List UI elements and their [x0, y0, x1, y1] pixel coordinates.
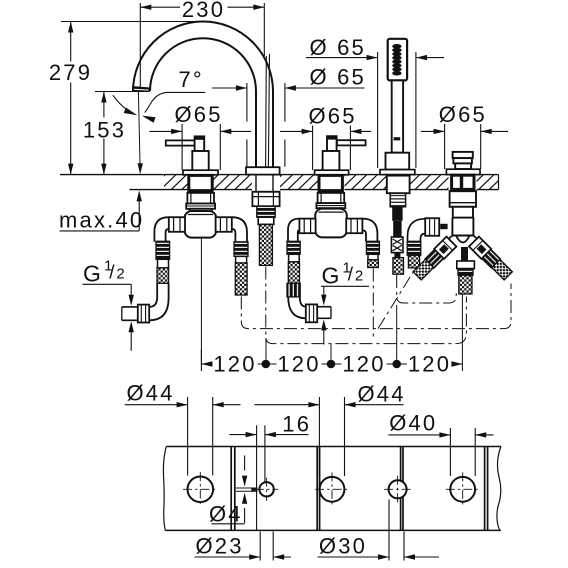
dimension O4 upper arrow	[244, 456, 246, 471]
dimension O65 diverter arrows	[434, 129, 445, 134]
shower shank block below deck	[387, 176, 410, 194]
spout tube reflection lines	[265, 56, 268, 167]
svg-text:max.40: max.40	[59, 208, 144, 233]
angle 7 deg right arrowhead	[142, 116, 156, 123]
svg-text:Ø44: Ø44	[358, 382, 406, 407]
right valve shank neck	[320, 208, 342, 212]
left valve left port hex	[169, 217, 185, 232]
routing diagonal to diverter left port hose	[378, 272, 414, 329]
spray axis arrow on deck	[138, 163, 143, 174]
hand shower head	[388, 39, 407, 81]
label G1/2 right lower arrow	[321, 319, 326, 330]
svg-text:7°: 7°	[179, 67, 204, 92]
svg-text:120: 120	[342, 351, 385, 376]
diverter escutcheon flange	[446, 169, 480, 174]
plate top edge	[166, 446, 501, 448]
hole 3 (O44) circle	[320, 477, 345, 502]
svg-text:Ø65: Ø65	[309, 103, 357, 128]
spout gooseneck outer arc	[133, 22, 273, 168]
right handle lever bar	[337, 140, 366, 145]
diverter upper body block	[450, 191, 476, 207]
svg-text:G: G	[83, 261, 103, 287]
spout shank through-deck lines	[255, 175, 257, 192]
right handle escutcheon flange	[315, 170, 349, 175]
hole 4 (O30) circle	[389, 480, 407, 498]
diverter left branch arm	[412, 237, 456, 281]
diverter knob top	[453, 152, 473, 158]
plate left break edge	[163, 447, 166, 531]
angle 7 deg left arc	[113, 95, 134, 113]
dimension 16 ext lines	[256, 425, 258, 530]
svg-text:279: 279	[49, 60, 92, 85]
svg-text:Ø 65: Ø 65	[310, 35, 367, 60]
bath rim deck bottom line	[130, 189, 499, 191]
dimension O65 left-handle arrows	[171, 129, 182, 134]
svg-text:153: 153	[83, 117, 126, 142]
shower hose pin	[394, 253, 400, 258]
dimension O65 shower underline-leader	[306, 57, 378, 59]
hand shower tube mark	[394, 137, 401, 140]
right valve shank block	[318, 193, 345, 203]
dimension O65 right-handle ext lines	[312, 126, 314, 171]
diverter knob neck	[455, 163, 471, 169]
diverter body lower	[452, 218, 473, 236]
hand shower handle tube	[392, 80, 403, 152]
dimension O44 left arrow line	[125, 404, 188, 406]
hole 1 (O44) circle	[188, 477, 214, 503]
label G1/2 left leader down	[130, 284, 132, 298]
hand shower escutcheon flange	[380, 170, 415, 175]
svg-text:2: 2	[355, 268, 366, 285]
shower hose braided end	[393, 258, 404, 275]
left valve shank block	[187, 193, 214, 204]
right hose end hex nut	[306, 304, 317, 322]
dimension O40 right line	[475, 434, 493, 436]
centerline stub c4 lower	[396, 305, 398, 364]
right valve left hose braided	[288, 262, 299, 283]
plate joint line 3	[400, 447, 402, 531]
left hose upper ribbed connector	[156, 241, 170, 259]
right valve right hose ribbed connector	[366, 241, 379, 254]
right valve shank collar	[316, 203, 345, 208]
label G1/2 right underline	[321, 285, 369, 287]
svg-text:120: 120	[213, 351, 256, 376]
dimension O30 ext lines	[388, 500, 390, 561]
dimension O65 spout arrow lines	[212, 87, 247, 89]
dimension 120 row left ext line	[200, 350, 202, 372]
svg-text:230: 230	[182, 0, 225, 22]
dimension O44 right arrows	[308, 402, 319, 407]
svg-text:120: 120	[277, 351, 320, 376]
left handle escutcheon flange	[183, 170, 218, 175]
dimension 279 top extension line	[61, 21, 203, 23]
label max40 leader	[138, 196, 140, 231]
dimension O65 left-handle arrow lines	[150, 130, 183, 132]
left valve right port hex	[216, 217, 232, 232]
dimension O65 shower arrows	[367, 55, 378, 60]
diverter knob middle	[453, 158, 472, 163]
dimension O65 spout arrows	[236, 85, 247, 90]
right hose G1/2 pipe end	[317, 306, 331, 308]
diverter left port hose ribbed	[407, 241, 421, 255]
centerline stub c3 lower	[330, 344, 332, 364]
bath rim deck top surface line	[60, 174, 499, 176]
hand shower knurled grip pattern	[392, 44, 401, 49]
routing line from shower hose to diverter center	[397, 275, 457, 303]
spout supply hose braided	[259, 224, 272, 265]
right valve right elbow tube	[362, 219, 377, 242]
svg-text:Ø44: Ø44	[127, 381, 175, 406]
dimension O44 right arrow line	[255, 404, 320, 406]
shower connection rod	[392, 207, 402, 221]
dimension O44 right ext lines	[318, 397, 320, 476]
dimension 230 extension line left	[139, 3, 141, 87]
plate joint line 2	[316, 447, 318, 531]
dimension O30 arrows	[378, 554, 389, 559]
dimension O65 shower ext lines	[377, 52, 379, 168]
left valve body	[185, 211, 217, 238]
dimension O44 left arrows	[177, 402, 188, 407]
spout shank nut	[257, 206, 275, 217]
dimension O4 hole lines	[236, 487, 258, 489]
routing line from left valve hose to diverter right branch	[241, 284, 511, 329]
diverter center outlet rod	[461, 247, 468, 261]
right valve left hose lower ribbed	[287, 283, 300, 297]
dimension O65 shower right line	[416, 57, 444, 59]
left hose braided section	[157, 268, 169, 283]
dimension O23 arrows	[249, 554, 260, 559]
plate right end double line	[484, 447, 486, 531]
plate joint line 1	[230, 447, 232, 531]
dimension O65 spout ext lines	[246, 83, 248, 122]
left hose lower elbow tube	[149, 283, 157, 307]
dimension O65 right-handle arrows	[302, 129, 313, 134]
dimension O40 ext lines	[449, 428, 451, 476]
svg-text:Ø65: Ø65	[175, 102, 223, 127]
deck right end edge	[498, 175, 500, 190]
dimension 279 line	[70, 22, 72, 62]
dimension 230 extension line right	[263, 3, 265, 56]
left handle lever bar	[166, 140, 196, 145]
hole 2 (O23) circle	[259, 482, 273, 496]
right valve left port hex	[299, 219, 315, 234]
left handle cartridge body	[192, 151, 208, 170]
diverter center hose nut	[457, 261, 475, 269]
svg-text:Ø23: Ø23	[196, 534, 244, 559]
dimension O65 left-handle ext lines	[181, 124, 183, 170]
label max40 arrow	[137, 190, 142, 201]
diverter Y body outline	[433, 236, 493, 253]
right valve mounting nut in deck hole	[319, 175, 342, 190]
centerline c1 to dimension row	[200, 239, 202, 365]
left hose G1/2 pipe end	[122, 306, 138, 308]
shower hose X connector	[391, 237, 403, 253]
dimension 120 row dots	[262, 360, 271, 369]
dimension 120 row arrows	[201, 361, 212, 366]
dimension 153 extension line	[95, 91, 149, 93]
plate right break edge	[497, 447, 501, 531]
spout outlet aerator end	[133, 87, 150, 92]
left hose end hex nut	[138, 305, 149, 323]
centerline c5 lower	[461, 295, 463, 372]
spout gooseneck inner arc	[150, 38, 256, 167]
diverter center hose braided	[459, 275, 472, 294]
dimension O40 arrows	[439, 432, 450, 437]
dimension O44 left ext lines	[187, 397, 189, 476]
deck hole gaps	[188, 174, 213, 191]
hole 5 (O40) circle	[450, 477, 475, 502]
svg-text:120: 120	[408, 351, 451, 376]
left valve left elbow tube	[154, 217, 168, 241]
dimension O44 left right line	[213, 404, 241, 406]
dimension 120 row line	[201, 363, 212, 365]
svg-text:Ø4: Ø4	[209, 501, 243, 526]
right valve left elbow tube	[288, 219, 299, 242]
dimension 16 arrows	[246, 432, 257, 437]
right valve left hose ribbed connector	[287, 241, 300, 254]
left valve right elbow tube	[232, 217, 247, 242]
left valve right hose collar	[236, 256, 247, 263]
dimension O65 diverter ext lines	[444, 124, 446, 169]
dimension 230 line	[140, 6, 180, 8]
hand shower base block	[386, 153, 410, 170]
spout spray axis line	[138, 92, 140, 169]
dimension O4 underline	[212, 523, 245, 525]
dimension O65 right-handle right line	[350, 130, 371, 132]
right valve body detail line	[319, 211, 344, 213]
dimension O30 arrow lines	[318, 556, 390, 558]
right valve left hose lower elbow	[288, 297, 306, 318]
svg-text:16: 16	[282, 412, 311, 437]
dimension O65 spout underline-leader	[302, 87, 365, 89]
angle 7 deg left arrowhead	[124, 108, 138, 116]
label G1/2 right leader down	[323, 286, 325, 298]
left hose union collar	[158, 259, 169, 268]
angle 7 deg right arc with leader	[145, 92, 205, 112]
right valve right hose braided	[368, 260, 379, 268]
left valve shank neck	[190, 209, 212, 213]
svg-text:Ø65: Ø65	[439, 102, 487, 127]
dimension O23 arrow lines	[195, 556, 261, 558]
label max40 underline	[60, 230, 140, 232]
right valve right port hex	[346, 219, 362, 234]
diverter mounting block in deck hole	[452, 175, 474, 189]
svg-text:Ø 65: Ø 65	[310, 65, 367, 90]
label G1/2 left arrow to pipe	[129, 295, 134, 306]
svg-text:Ø30: Ø30	[319, 534, 367, 559]
dimension 153 line	[103, 92, 105, 118]
routing stub below right valve hose	[372, 269, 374, 339]
right valve body	[315, 209, 347, 238]
dimension O44 right label line	[345, 404, 404, 406]
dimension O40 arrow line	[388, 434, 450, 436]
left valve right hose braided section	[235, 263, 247, 295]
shower shank collar	[390, 193, 405, 207]
diverter right branch arm	[469, 237, 513, 281]
diverter body	[453, 207, 473, 218]
left valve shank collar	[186, 204, 215, 209]
diverter left port hex elbow	[408, 219, 426, 242]
dimension O23 ext lines	[259, 532, 261, 561]
right valve left hose collar	[289, 254, 300, 262]
diverter left port hose braided	[408, 255, 419, 268]
svg-text:G: G	[322, 263, 342, 289]
right handle cartridge body	[323, 151, 340, 170]
dimension 279 arrows	[68, 22, 73, 33]
diverter left port mark	[440, 224, 447, 229]
left handle stem	[195, 136, 205, 151]
svg-text:2: 2	[116, 266, 127, 283]
left valve mounting nut in deck hole	[189, 175, 212, 190]
plate bottom edge	[165, 529, 501, 531]
left valve body detail line	[188, 214, 213, 216]
dimension O65 diverter arrow lines	[421, 130, 445, 132]
right valve right hose collar	[368, 254, 378, 260]
label G1/2 right arrow to pipe	[321, 295, 326, 306]
spout shank step	[258, 217, 274, 224]
centerline c2 solid lower	[265, 338, 267, 364]
dimension O4 lower arrow	[242, 493, 247, 504]
dimension 153 arrows	[101, 92, 106, 103]
spout base flange on deck	[246, 167, 280, 174]
dimension 16 arrow lines	[230, 434, 257, 436]
routing line from spout hose to diverter	[266, 267, 467, 344]
diverter center hose ribbed	[458, 269, 473, 276]
right handle stem	[327, 136, 337, 151]
dimension 230 arrows	[140, 5, 151, 10]
label G1/2 left underline	[83, 283, 132, 285]
label G1/2 left lower arrow	[129, 321, 134, 332]
left valve right hose ribbed connector	[234, 242, 248, 257]
spout shank flange block	[252, 192, 279, 206]
svg-text:Ø40: Ø40	[389, 411, 437, 436]
